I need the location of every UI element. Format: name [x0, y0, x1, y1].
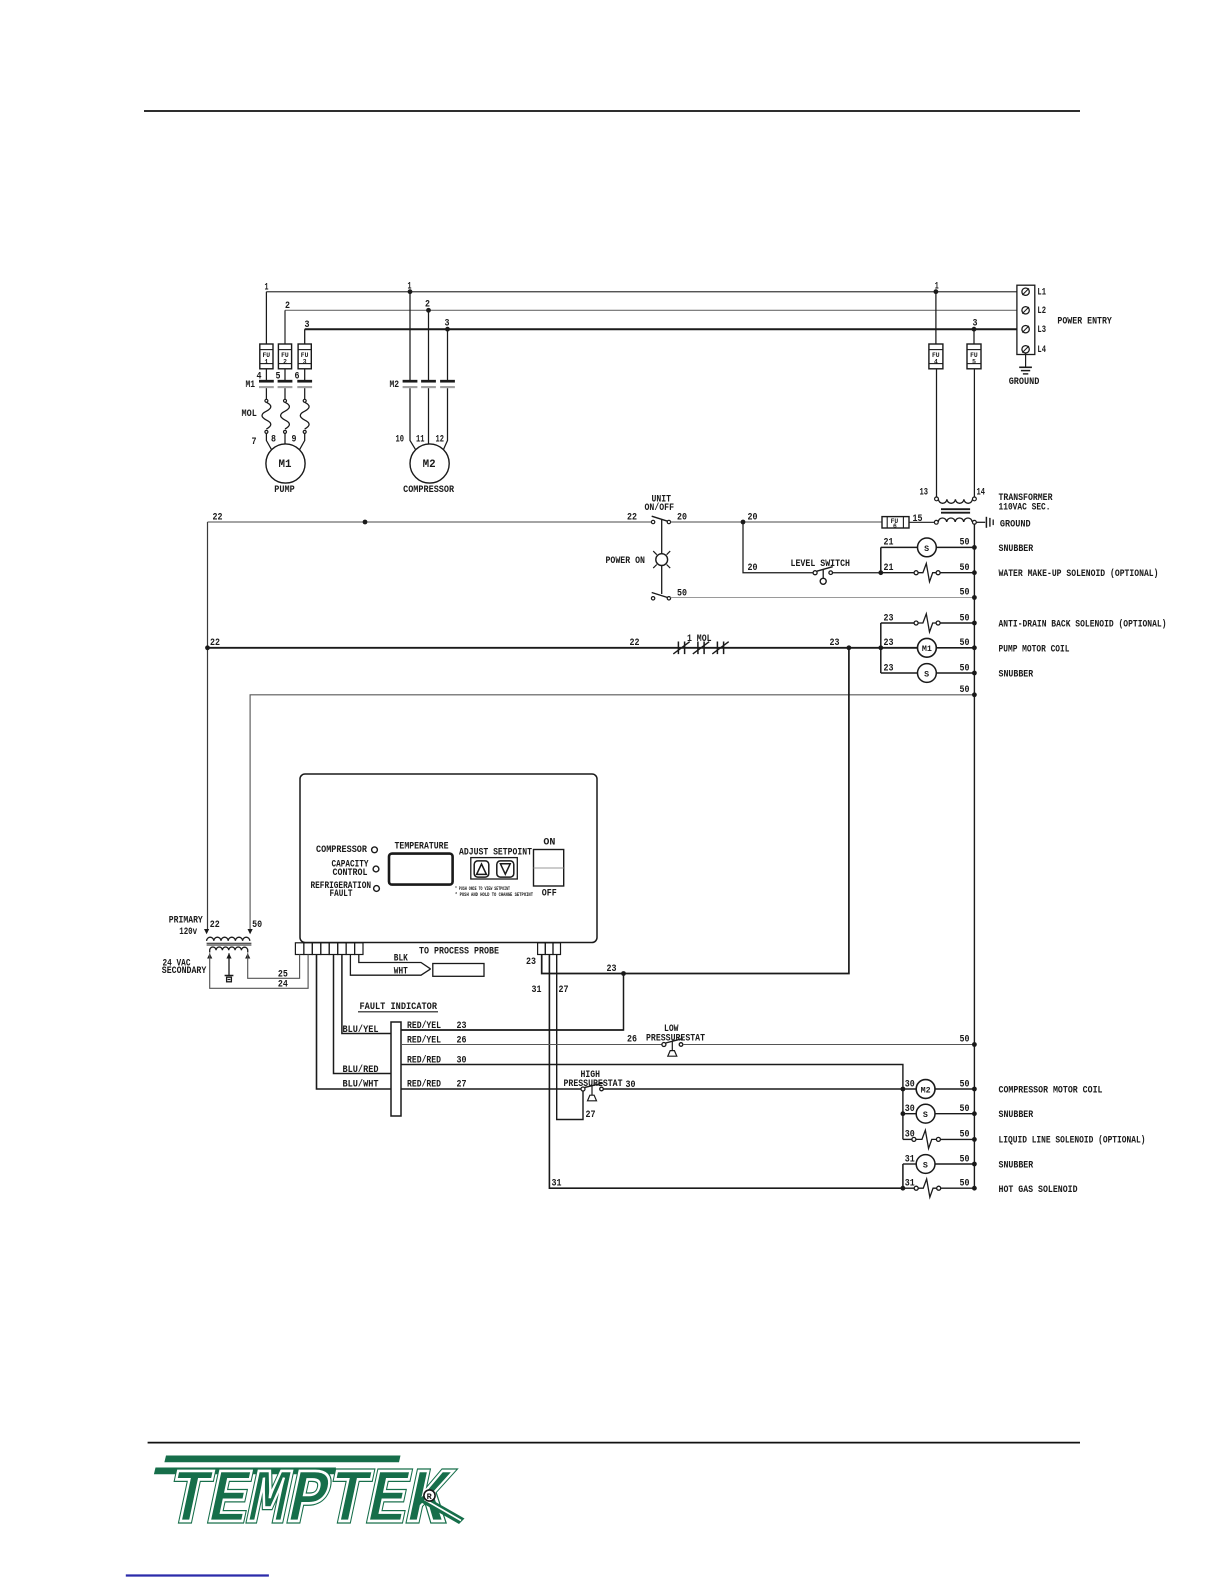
svg-text:22: 22 — [627, 513, 637, 524]
fuse FU5 — [967, 344, 981, 369]
transformer T1 secondary — [934, 518, 976, 524]
wire L2 phase line 2 — [285, 309, 1017, 311]
overload MOL heater pole 3 — [300, 399, 309, 433]
svg-text:COMPRESSOR MOTOR COIL: COMPRESSOR MOTOR COIL — [999, 1086, 1103, 1097]
svg-text:1: 1 — [408, 282, 412, 293]
svg-text:50: 50 — [960, 1130, 970, 1141]
terminal screw L3 — [1022, 326, 1029, 333]
wire 23 controller run — [542, 648, 849, 974]
switch on/off rocker — [534, 850, 564, 887]
node 50 bus snubber4 — [972, 1162, 977, 1167]
node dot on wire 22 — [363, 520, 368, 525]
svg-text:TEMPTEK: TEMPTEK — [160, 1459, 457, 1545]
svg-text:50: 50 — [960, 588, 970, 599]
node 1 junction at FU4 tap — [934, 289, 939, 294]
svg-text:15: 15 — [913, 514, 923, 525]
switch unit on/off lower pole — [651, 593, 670, 601]
svg-text:31: 31 — [905, 1155, 915, 1166]
wire 23 anti-drain rung right — [940, 622, 974, 624]
transformer T1 core — [941, 509, 970, 513]
wire 31 hot gas rung right — [941, 1187, 975, 1189]
svg-text:2: 2 — [283, 359, 287, 366]
overload MOL heater pole 1 — [262, 399, 271, 433]
snubber S1 — [918, 538, 937, 557]
node 30 junction M2 rung — [901, 1087, 906, 1092]
node 50 bus liquid — [972, 1137, 977, 1142]
pilot light POWER ON — [653, 551, 670, 568]
wire L3 phase line 3 — [305, 328, 1017, 330]
node 23 rail junction — [878, 645, 883, 650]
svg-text:BLU/YEL: BLU/YEL — [343, 1024, 379, 1036]
LED compressor — [372, 847, 378, 853]
svg-text:S: S — [924, 545, 929, 554]
svg-text:31: 31 — [552, 1179, 562, 1190]
keypad adjust setpoint — [471, 858, 518, 879]
fuse FU4 — [929, 344, 943, 369]
button setpoint up — [474, 861, 489, 877]
logo K tail — [421, 1497, 465, 1525]
wire 21 water rung right — [940, 572, 974, 574]
wire 30 liquid line rung left — [903, 1138, 912, 1140]
arrow secondary right — [245, 953, 250, 958]
svg-text:50: 50 — [960, 1155, 970, 1166]
wire BLU/YEL — [342, 955, 391, 1034]
svg-text:S: S — [923, 1111, 928, 1120]
button setpoint down — [497, 861, 514, 877]
ground symbol power entry — [1019, 353, 1032, 374]
wire 22 left rail — [207, 522, 209, 930]
svg-text:WHT: WHT — [394, 967, 408, 978]
wire 30 snubber rung right — [935, 1113, 974, 1115]
svg-text:3: 3 — [445, 319, 450, 330]
LED capacity control — [373, 866, 379, 872]
svg-text:GROUND: GROUND — [1009, 377, 1040, 388]
wire 22 top rung — [208, 521, 652, 523]
wire level switch to rail — [833, 572, 881, 574]
svg-text:S: S — [924, 670, 929, 679]
contactor contact M2 pole 3 — [440, 381, 455, 387]
wire 30 liquid line rung right — [940, 1138, 974, 1140]
fault indicator connector — [391, 1022, 401, 1116]
fuse FU3 — [298, 344, 311, 369]
wire 31 snubber rung left — [903, 1163, 916, 1165]
svg-text:PUMP: PUMP — [274, 485, 294, 496]
svg-text:23: 23 — [607, 964, 617, 975]
solenoid hot gas — [914, 1179, 941, 1197]
transformer T2 primary — [207, 937, 250, 941]
node 50 on bus — [972, 595, 977, 600]
svg-text:L3: L3 — [1037, 325, 1046, 336]
svg-text:M2: M2 — [390, 380, 400, 391]
svg-text:10: 10 — [396, 435, 405, 446]
wire overload to motor M1 leg 2 — [284, 433, 286, 444]
wire 30 pressurestat to M2 coil — [603, 1088, 916, 1090]
svg-text:13: 13 — [920, 488, 929, 499]
svg-text:30: 30 — [905, 1130, 915, 1141]
svg-text:SNUBBER: SNUBBER — [999, 1161, 1034, 1172]
display temperature — [389, 854, 453, 885]
wire BLU/WHT — [317, 955, 392, 1090]
wire M2 rung to bus — [935, 1088, 974, 1090]
node 50 bus snubber1 — [972, 545, 977, 550]
logo swash bar 2 — [154, 1468, 336, 1475]
svg-text:SNUBBER: SNUBBER — [999, 670, 1034, 681]
wire line3 to M2 contact — [447, 329, 449, 380]
wire 23 snubber rung left — [881, 672, 918, 674]
svg-text:R: R — [427, 1492, 433, 1502]
svg-text:1: 1 — [935, 282, 939, 293]
svg-text:21: 21 — [884, 563, 894, 574]
node 50 bus return — [972, 692, 977, 697]
svg-text:50: 50 — [960, 1080, 970, 1091]
transformer T2 secondary — [210, 947, 248, 953]
wire 21 water rung left — [881, 572, 914, 574]
svg-text:PRIMARY: PRIMARY — [169, 915, 203, 926]
solenoid water make-up — [914, 564, 940, 582]
node 3 junction at compressor tap — [445, 327, 450, 332]
svg-text:TEMPERATURE: TEMPERATURE — [395, 842, 449, 853]
wire M2 contact to motor leg 1 — [410, 388, 416, 451]
wire 50 bus — [973, 524, 975, 1189]
wire FU2 to M1 contact — [284, 369, 286, 380]
switch link upper — [661, 519, 663, 553]
level switch LS1 — [813, 567, 833, 585]
wire FU3 to M1 contact — [304, 369, 306, 380]
wire FU1 to M1 contact — [265, 369, 267, 380]
process probe — [433, 964, 484, 977]
overload MOL heater pole 2 — [281, 399, 290, 433]
svg-text:30: 30 — [905, 1104, 915, 1115]
wire L1 phase line 1 — [266, 291, 1017, 293]
svg-text:6: 6 — [893, 523, 897, 530]
wire RED/YEL 23 row — [401, 1029, 624, 1031]
svg-text:20: 20 — [748, 513, 758, 524]
arrow secondary left — [207, 953, 212, 958]
svg-text:POWER ON: POWER ON — [606, 556, 646, 567]
wire 22 pump rung — [208, 647, 918, 649]
svg-text:L4: L4 — [1037, 345, 1046, 356]
wire 31 rail — [902, 1164, 904, 1188]
snubber S3 — [916, 1104, 935, 1123]
svg-text:LIQUID LINE SOLENOID (OPTIONAL: LIQUID LINE SOLENOID (OPTIONAL) — [999, 1135, 1146, 1147]
svg-text:COMPRESSOR: COMPRESSOR — [316, 845, 367, 856]
svg-text:20: 20 — [748, 563, 758, 574]
svg-text:BLK: BLK — [394, 954, 408, 965]
contact MOL NC 2 — [693, 642, 709, 655]
svg-text:2: 2 — [425, 300, 430, 311]
svg-text:50: 50 — [960, 1035, 970, 1046]
node 50 bus anti-drain — [972, 621, 977, 626]
wire 24 secondary left to lug — [210, 953, 308, 988]
svg-text:3: 3 — [303, 359, 307, 366]
node 50 bus water — [972, 570, 977, 575]
wire line2 to FU2 — [284, 310, 286, 344]
svg-text:26: 26 — [627, 1035, 637, 1046]
svg-text:M2: M2 — [921, 1086, 931, 1095]
svg-text:TO PROCESS PROBE: TO PROCESS PROBE — [419, 946, 499, 957]
svg-text:FAULT: FAULT — [330, 889, 353, 900]
svg-text:* PUSH AND HOLD TO CHANGE SETP: * PUSH AND HOLD TO CHANGE SETPOINT — [455, 891, 533, 898]
node 23 junction pump rung — [847, 645, 852, 650]
wire M2 contact to motor leg 2 — [428, 388, 430, 444]
underline fault indicator — [358, 1011, 438, 1013]
arrow primary right — [248, 929, 253, 934]
svg-text:50: 50 — [960, 685, 970, 696]
terminal screw L4 — [1022, 346, 1029, 353]
svg-text:9: 9 — [292, 435, 297, 446]
node 22 rail junction — [205, 645, 210, 650]
svg-text:50: 50 — [252, 920, 262, 931]
svg-text:WATER MAKE-UP SOLENOID (OPTION: WATER MAKE-UP SOLENOID (OPTIONAL) — [999, 568, 1159, 580]
solenoid liquid line — [912, 1130, 941, 1148]
node 50 bus snubber3 — [972, 1111, 977, 1116]
svg-text:HOT GAS SOLENOID: HOT GAS SOLENOID — [999, 1185, 1078, 1196]
wire M1 contact to overload pole 3 — [304, 388, 306, 399]
svg-text:31: 31 — [905, 1179, 915, 1190]
contactor contact M1 pole 1 — [259, 381, 274, 387]
wire FU4 to transformer primary — [936, 369, 938, 497]
wire M1 contact to overload pole 1 — [265, 388, 267, 399]
svg-text:PUMP MOTOR COIL: PUMP MOTOR COIL — [999, 645, 1070, 656]
svg-text:22: 22 — [210, 638, 220, 649]
svg-text:23: 23 — [884, 638, 894, 649]
wire RED/YEL 26 row left — [401, 1044, 662, 1046]
svg-text:24: 24 — [278, 980, 288, 991]
svg-text:COMPRESSOR: COMPRESSOR — [403, 485, 454, 496]
svg-text:ON: ON — [543, 838, 555, 849]
fuse FU1 — [260, 344, 273, 369]
ground symbol transformer — [986, 517, 993, 528]
wire 30 snubber rung left — [903, 1113, 916, 1115]
svg-text:CONTROL: CONTROL — [333, 868, 368, 879]
footer link line — [126, 1574, 269, 1576]
switch link lower — [661, 566, 663, 594]
contactor contact M1 pole 3 — [297, 381, 312, 387]
wire pump rung to bus — [936, 647, 974, 649]
svg-text:7: 7 — [252, 437, 257, 448]
svg-text:31: 31 — [532, 985, 542, 996]
svg-text:L1: L1 — [1037, 288, 1046, 299]
svg-text:22: 22 — [210, 920, 220, 931]
wire 23 fault row drop — [401, 974, 624, 1031]
svg-text:1: 1 — [265, 359, 269, 366]
svg-text:23: 23 — [884, 664, 894, 675]
contactor contact M2 pole 2 — [421, 381, 436, 387]
svg-text:22: 22 — [630, 638, 640, 649]
fuse FU2 — [278, 344, 291, 369]
wire FU6 to secondary — [909, 521, 934, 523]
node 20 junction — [741, 520, 746, 525]
svg-text:27: 27 — [586, 1110, 596, 1121]
wire line1 to M2 contact — [409, 292, 411, 380]
svg-text:23: 23 — [884, 614, 894, 625]
svg-text:BLU/RED: BLU/RED — [343, 1064, 379, 1076]
svg-text:50: 50 — [960, 614, 970, 625]
svg-text:12: 12 — [436, 435, 445, 446]
node 50 bus snubber2 — [972, 671, 977, 676]
transformer T2 core — [207, 943, 252, 945]
terminal block power entry — [1017, 285, 1035, 354]
svg-text:23: 23 — [526, 957, 536, 968]
svg-text:110VAC SEC.: 110VAC SEC. — [999, 503, 1051, 514]
svg-text:2: 2 — [285, 301, 290, 312]
arrow primary left — [204, 929, 209, 934]
svg-text:50: 50 — [960, 638, 970, 649]
wire 20 drop — [743, 522, 813, 573]
wire line1 to FU4 — [935, 292, 937, 344]
wire 31 hot gas rung left — [903, 1187, 914, 1189]
wire M1 contact to overload pole 2 — [284, 388, 286, 399]
temperature controller enclosure — [300, 774, 597, 943]
svg-text:11: 11 — [416, 435, 425, 446]
wire 23 anti-drain rung left — [881, 622, 914, 624]
node 1 junction at compressor tap — [408, 289, 413, 294]
wire line3 to FU5 — [973, 329, 975, 344]
svg-text:LEVEL SWITCH: LEVEL SWITCH — [791, 559, 851, 570]
snubber S4 — [916, 1155, 935, 1174]
wire 21 rail — [880, 547, 882, 572]
wire line3 to FU3 — [304, 329, 306, 344]
wire BLU/RED — [334, 955, 392, 1074]
svg-text:M1: M1 — [922, 645, 932, 654]
svg-text:S: S — [923, 1161, 928, 1170]
node 50 bus low prs — [972, 1042, 977, 1047]
snubber S2 — [918, 664, 937, 683]
logo registered trademark — [424, 1490, 435, 1502]
node 21 rail junction — [878, 570, 883, 575]
svg-text:BLU/WHT: BLU/WHT — [343, 1079, 379, 1091]
svg-text:23: 23 — [830, 638, 840, 649]
svg-text:30: 30 — [905, 1080, 915, 1091]
svg-text:M1: M1 — [279, 459, 292, 471]
wire RED/RED 30 row — [401, 1065, 903, 1140]
wire 23 rail — [880, 623, 882, 673]
arrow secondary center — [226, 953, 231, 958]
svg-text:5: 5 — [972, 359, 976, 366]
svg-text:21: 21 — [884, 538, 894, 549]
wire 23 snubber rung right — [936, 672, 974, 674]
wire 50 gray rung — [671, 597, 975, 599]
contactor contact M2 pole 1 — [403, 381, 418, 387]
terminal lugs controller right — [538, 943, 561, 955]
wire 25 secondary right to lug — [248, 953, 300, 978]
svg-text:50: 50 — [960, 563, 970, 574]
wire WHT probe — [350, 955, 430, 976]
wire overload to motor M1 leg 1 — [266, 433, 272, 450]
motor M1 — [266, 444, 305, 483]
contactor contact M1 pole 2 — [278, 381, 293, 387]
wire 50 return — [250, 695, 974, 930]
terminal lugs controller left — [295, 943, 363, 955]
node 50 bus M2 — [972, 1087, 977, 1092]
svg-text:ANTI-DRAIN BACK SOLENOID (OPTI: ANTI-DRAIN BACK SOLENOID (OPTIONAL) — [999, 619, 1167, 631]
svg-text:50: 50 — [960, 664, 970, 675]
terminal screw L2 — [1022, 307, 1029, 314]
svg-text:50: 50 — [960, 1179, 970, 1190]
svg-text:POWER ENTRY: POWER ENTRY — [1057, 317, 1112, 328]
wire 20 to FU6 — [671, 521, 882, 523]
wire overload to motor M1 leg 3 — [299, 433, 305, 450]
logo swash bar 1 — [164, 1456, 400, 1463]
wire 26 row right — [683, 1044, 975, 1046]
solenoid anti-drain back — [914, 614, 940, 632]
svg-text:50: 50 — [960, 538, 970, 549]
svg-text:SNUBBER: SNUBBER — [999, 1110, 1034, 1121]
node 2 junction at compressor tap — [426, 308, 431, 313]
wire secondary to ground — [976, 521, 985, 523]
pressure switch high — [581, 1083, 603, 1101]
svg-text:ADJUST SETPOINT: ADJUST SETPOINT — [459, 848, 532, 859]
transformer T1 primary — [935, 497, 977, 503]
wire — [144, 110, 1080, 112]
fuse FU6 — [882, 517, 909, 530]
svg-text:M2: M2 — [423, 459, 436, 471]
wire M2 contact to motor leg 3 — [443, 388, 448, 451]
svg-text:MOL: MOL — [242, 409, 257, 420]
node 3 junction at FU5 tap — [972, 327, 977, 332]
ground symbol secondary center tap — [225, 953, 234, 982]
wire 27 run — [557, 955, 583, 1120]
wire line2 to M2 contact — [428, 310, 430, 380]
svg-text:8: 8 — [271, 435, 276, 446]
wire — [148, 1442, 1080, 1444]
LED refrigeration fault — [374, 886, 380, 892]
contact MOL NC 3 — [712, 642, 728, 655]
pressure switch low — [662, 1039, 683, 1057]
svg-text:SNUBBER: SNUBBER — [999, 544, 1034, 555]
node 31 junction hot gas — [901, 1186, 906, 1191]
node 30 junction snubber rung — [901, 1111, 906, 1116]
node 23 junction fault row — [621, 971, 626, 976]
svg-text:OFF: OFF — [542, 889, 557, 900]
svg-text:50: 50 — [960, 1104, 970, 1115]
node 50 bus hot gas — [972, 1186, 977, 1191]
svg-text:120v: 120v — [179, 927, 197, 938]
svg-text:27: 27 — [559, 985, 569, 996]
svg-text:GROUND: GROUND — [1000, 520, 1031, 531]
svg-text:3: 3 — [973, 319, 978, 330]
motor M2 — [410, 444, 449, 483]
coil M2 compressor motor — [916, 1080, 935, 1099]
svg-text:ON/OFF: ON/OFF — [645, 502, 675, 514]
wire FU5 to transformer primary — [973, 369, 975, 497]
node 50 bus pump — [972, 645, 977, 650]
terminal screw L1 — [1022, 288, 1029, 295]
coil M1 pump motor — [918, 638, 937, 657]
wire line1 to FU1 — [265, 292, 267, 344]
contact MOL NC 1 — [673, 642, 689, 655]
switch unit on/off upper pole — [651, 516, 670, 524]
svg-text:4: 4 — [934, 359, 938, 366]
svg-text:SECONDARY: SECONDARY — [162, 966, 207, 977]
svg-text:14: 14 — [977, 488, 986, 499]
wire 21 snubber rung — [881, 546, 975, 548]
wire RED/RED 27 row — [401, 1088, 581, 1090]
wire 31 long run — [549, 955, 903, 1189]
svg-text:PRESSURESTAT: PRESSURESTAT — [646, 1034, 705, 1045]
wire BLK probe — [359, 955, 431, 969]
wire 31 snubber rung right — [935, 1163, 974, 1165]
svg-text:22: 22 — [213, 513, 223, 524]
svg-text:M1: M1 — [246, 380, 256, 391]
svg-text:L2: L2 — [1037, 306, 1046, 317]
